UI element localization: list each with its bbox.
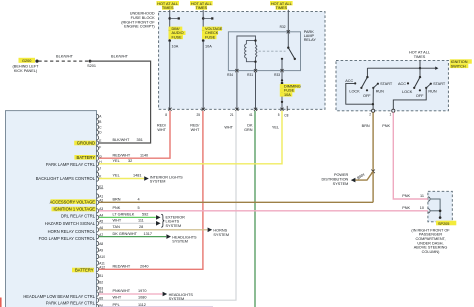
svg-text:HOT AT ALL: HOT AT ALL: [157, 2, 178, 6]
svg-text:1481: 1481: [133, 174, 141, 178]
svg-text:OFF: OFF: [416, 94, 424, 98]
svg-text:A10: A10: [99, 255, 105, 259]
svg-text:592: 592: [142, 213, 148, 217]
svg-text:R32: R32: [280, 25, 286, 29]
svg-text:1: 1: [390, 112, 392, 116]
svg-text:UNDERHOOD: UNDERHOOD: [130, 12, 155, 16]
svg-text:GROUND: GROUND: [77, 141, 95, 146]
svg-text:F: F: [99, 146, 101, 150]
svg-text:RUN: RUN: [376, 89, 384, 93]
svg-text:PPL: PPL: [113, 303, 120, 307]
node S201: [89, 60, 92, 63]
svg-text:A8: A8: [99, 242, 103, 246]
svg-text:LOCK: LOCK: [402, 90, 413, 94]
svg-text:4: 4: [138, 198, 140, 202]
svg-text:ACCESSORY VOLTAGE: ACCESSORY VOLTAGE: [50, 199, 96, 204]
svg-text:8: 8: [165, 113, 167, 117]
svg-text:BACKLIGHT LAMPS CONTROL: BACKLIGHT LAMPS CONTROL: [36, 176, 96, 181]
bus stub F1: [170, 17, 178, 19]
svg-text:TIMES: TIMES: [414, 55, 426, 59]
fuse block bottom pin 41: [254, 108, 257, 111]
ignition pin 2: [372, 109, 375, 112]
svg-text:RUN: RUN: [428, 89, 436, 93]
wire RED/WHT 2040 fuse pin 25 to module pin A12: [99, 111, 203, 269]
svg-text:SP205: SP205: [438, 222, 449, 226]
svg-text:28: 28: [139, 225, 143, 229]
svg-text:ACC: ACC: [345, 79, 353, 83]
svg-text:B1: B1: [99, 274, 103, 278]
label IGNITION SWITCH: [450, 59, 472, 68]
svg-text:SYSTEM: SYSTEM: [213, 233, 229, 237]
label HOT AT ALL TIMES (relay feed): [270, 1, 293, 10]
svg-text:1112: 1112: [138, 303, 146, 307]
pin R33: [280, 69, 283, 72]
wire red tick at left edge: [0, 298, 2, 307]
splice SP205 box: [428, 191, 452, 222]
wire BLK/WHT 351 from S201 to module pin E: [90, 61, 151, 143]
splice (X) on BRN wire: [371, 170, 375, 174]
branch BRN to power distribution: [355, 171, 373, 180]
svg-text:START: START: [433, 82, 446, 86]
svg-text:YEL: YEL: [272, 126, 279, 130]
svg-text:SYSTEM: SYSTEM: [333, 182, 349, 186]
svg-text:HOT AT ALL: HOT AT ALL: [409, 51, 430, 55]
fuse block bottom pin 5: [280, 108, 283, 111]
svg-text:LT GRN/BLK: LT GRN/BLK: [113, 213, 135, 217]
svg-text:WHT: WHT: [113, 295, 122, 299]
wire BRN from ignition pin 2: [372, 112, 374, 202]
svg-text:BLK/WHT: BLK/WHT: [113, 138, 131, 142]
svg-text:HOT AT ALL: HOT AT ALL: [191, 2, 212, 6]
svg-text:A3: A3: [99, 207, 103, 211]
svg-text:IGNITION 1 VOLTAGE: IGNITION 1 VOLTAGE: [54, 207, 96, 212]
svg-text:SYSTEM: SYSTEM: [169, 297, 185, 301]
label SP205: [436, 221, 456, 226]
label UNDERHOOD FUSE BLOCK: [121, 12, 155, 29]
svg-text:2040: 2040: [140, 265, 148, 269]
fuse F2 VOLTAGE CHECK feed wire: [202, 12, 204, 30]
svg-text:A12: A12: [99, 266, 105, 270]
fuse F1 DIM/AUDIO feed wire: [169, 12, 171, 30]
wire BLK/WHT dashed G200 to S201: [39, 60, 91, 62]
wire R33 to dimming fuse: [281, 72, 283, 80]
module label IGNITION 1 VOLTAGE (pin A3): [52, 207, 96, 212]
svg-text:HEADLAMP LOW BEAM RELAY CTRL: HEADLAMP LOW BEAM RELAY CTRL: [23, 294, 95, 299]
svg-text:HOT AT ALL: HOT AT ALL: [271, 2, 292, 6]
svg-text:YEL: YEL: [113, 174, 120, 178]
module label BATTERY (pin G): [74, 155, 95, 160]
svg-text:A2: A2: [99, 199, 103, 203]
svg-text:1140: 1140: [140, 153, 148, 157]
svg-text:10: 10: [420, 206, 424, 210]
svg-text:PNK/WHT: PNK/WHT: [113, 289, 131, 293]
svg-text:COLUMN): COLUMN): [422, 250, 440, 254]
ignition feed wire: [419, 60, 421, 68]
connector C8 mark: [286, 106, 288, 111]
svg-text:E2: E2: [99, 185, 103, 189]
svg-text:B4: B4: [99, 290, 103, 294]
svg-text:OFF: OFF: [363, 94, 371, 98]
svg-text:A9: A9: [99, 248, 103, 252]
svg-text:R33: R33: [274, 73, 280, 77]
wire BRN 4 module pin A2 to ignition splice: [99, 201, 373, 203]
svg-text:SYSTEM: SYSTEM: [150, 180, 166, 184]
brace exterior lights: [161, 214, 164, 227]
ignition switch box: [336, 60, 448, 110]
relay coil: [237, 36, 257, 71]
svg-text:10A: 10A: [172, 44, 179, 48]
relay K1 park lamp relay box: [228, 32, 300, 71]
fuse block bottom pin 21: [235, 108, 238, 111]
svg-text:351: 351: [137, 138, 143, 142]
svg-text:B2: B2: [99, 280, 103, 284]
svg-text:TAN: TAN: [113, 225, 121, 229]
relay switch: [287, 32, 289, 48]
svg-text:(RIGHT FRONT OF: (RIGHT FRONT OF: [121, 20, 155, 24]
ignition pin 1: [392, 109, 395, 112]
svg-text:10A: 10A: [205, 44, 212, 48]
svg-text:START: START: [380, 82, 393, 86]
wire PNK 5 module pin A3 to SP205 pin 10: [99, 210, 428, 212]
svg-text:HAZARD SWITCH SIGNAL: HAZARD SWITCH SIGNAL: [45, 221, 96, 226]
wire R34 to fuse block pin 21: [236, 72, 238, 109]
svg-text:WHT: WHT: [113, 219, 122, 223]
svg-text:TIMES: TIMES: [275, 6, 287, 10]
svg-text:25: 25: [196, 113, 200, 117]
svg-text:BLK/WHT: BLK/WHT: [56, 54, 74, 58]
svg-text:ENGINE COMPT): ENGINE COMPT): [124, 25, 155, 29]
svg-text:SYSTEM: SYSTEM: [166, 224, 182, 228]
label HOT AT ALL TIMES (fuse 1): [156, 1, 179, 10]
wire YEL 32 fuse pin 5 to module pin H: [99, 111, 282, 164]
svg-text:R34: R34: [227, 73, 233, 77]
svg-text:A4: A4: [99, 214, 103, 218]
fuse block bottom pin 8: [168, 108, 171, 111]
svg-text:A6: A6: [99, 226, 103, 230]
wire relay feed R32: [287, 12, 289, 32]
feed stubs from power labels: [170, 10, 289, 12]
svg-text:A7: A7: [99, 233, 103, 237]
svg-text:BRN: BRN: [362, 124, 370, 128]
svg-text:BATTERY: BATTERY: [76, 155, 95, 160]
svg-text:5: 5: [278, 113, 280, 117]
fuse F3 DIMMING FUSE 10A: [281, 84, 282, 93]
svg-text:PNK: PNK: [113, 206, 121, 210]
relay mechanical link (dashed): [259, 50, 286, 52]
svg-text:WHT: WHT: [157, 128, 166, 132]
svg-text:WHT: WHT: [191, 128, 200, 132]
wire R31 to fuse block pin 41: [255, 72, 257, 109]
module U1 body control module box: [6, 111, 97, 307]
svg-text:11: 11: [420, 194, 424, 198]
svg-text:FUSE: FUSE: [205, 35, 216, 39]
svg-text:PNK: PNK: [402, 194, 410, 198]
svg-text:1970: 1970: [138, 289, 146, 293]
svg-text:FOG LAMP RELAY CONTROL: FOG LAMP RELAY CONTROL: [39, 236, 96, 241]
ground G200: [13, 58, 40, 73]
SP205 pin 10: [428, 209, 430, 213]
svg-text:SYSTEM: SYSTEM: [172, 240, 188, 244]
pin R31: [254, 69, 257, 72]
svg-text:A5: A5: [99, 220, 103, 224]
svg-text:TIMES: TIMES: [195, 6, 207, 10]
module label GROUND: [74, 141, 96, 146]
underhood fuse block box: [159, 12, 325, 110]
svg-text:21: 21: [230, 113, 234, 117]
bus stub F2: [203, 17, 211, 19]
wire PNK/WHT 1970 module pin B4 to headlights: [99, 293, 162, 295]
wire PPL 1112 module pin B6 (cut off at bottom edge): [99, 306, 213, 307]
svg-text:KICK PANEL): KICK PANEL): [14, 69, 38, 73]
wire RED/WHT 1140 fuse pin 8 to module pin G: [99, 111, 170, 158]
fuse F2 VOLTAGE CHECK FUSE 10A: [203, 31, 204, 40]
wire TAN 28 module pin A6 to horns: [99, 229, 207, 231]
SP205 internal wires: [430, 199, 440, 218]
svg-text:10A: 10A: [284, 93, 291, 97]
SP205 location text: [411, 228, 450, 254]
module label ACCESSORY VOLTAGE (pin A2): [50, 199, 96, 204]
SP205 pin 11: [428, 197, 430, 201]
wire LT GRN/BLK 592 module pin A4 to exterior lights: [99, 216, 156, 218]
wire PNK from ignition pin 1 to SP205 pin 11: [393, 112, 428, 199]
pin R32: [287, 30, 290, 33]
wire WHT 1080 fuse pin 21 to module pin B5: [99, 111, 236, 300]
module connector pin arcs: [97, 114, 99, 307]
svg-text:B5: B5: [99, 296, 103, 300]
svg-text:41: 41: [249, 113, 253, 117]
svg-text:IGNITION: IGNITION: [451, 60, 468, 64]
svg-text:DRL RELAY CTRL: DRL RELAY CTRL: [61, 213, 96, 218]
svg-text:1317: 1317: [144, 232, 152, 236]
svg-text:TIMES: TIMES: [162, 6, 174, 10]
svg-text:111: 111: [138, 219, 144, 223]
svg-text:BATTERY: BATTERY: [75, 268, 94, 273]
wire DK GRN/WHT 1317 module pin A7 to headlights: [99, 236, 166, 238]
svg-text:E: E: [99, 139, 101, 143]
svg-text:BLK/WHT: BLK/WHT: [111, 54, 129, 58]
svg-text:S201: S201: [87, 64, 96, 68]
wire YEL 1481 module pin K to interior lights: [99, 178, 144, 180]
svg-text:ACC: ACC: [398, 82, 406, 86]
svg-text:B: B: [99, 120, 101, 124]
fuse block bottom pin 25: [202, 108, 205, 111]
svg-text:FUSE BLOCK: FUSE BLOCK: [131, 16, 156, 20]
svg-text:SWITCH: SWITCH: [451, 64, 466, 68]
label HOT AT ALL TIMES (fuse 2): [190, 1, 213, 10]
svg-text:32: 32: [128, 159, 132, 163]
svg-text:FUSE: FUSE: [172, 35, 183, 39]
wire DK GRN fuse pin 41 down off page: [254, 111, 256, 307]
svg-text:PARK LAMP RELAY CTRL: PARK LAMP RELAY CTRL: [46, 162, 96, 167]
module label BATTERY (pin A12): [72, 268, 94, 273]
svg-text:R31: R31: [247, 73, 253, 77]
svg-text:PNK: PNK: [402, 206, 410, 210]
svg-text:RED/WHT: RED/WHT: [113, 153, 131, 157]
svg-text:WHT: WHT: [224, 126, 233, 130]
svg-text:RELAY: RELAY: [304, 38, 317, 42]
svg-text:BRN: BRN: [113, 198, 121, 202]
module pin letters: [99, 115, 105, 307]
svg-text:HORN RELAY CONTROL: HORN RELAY CONTROL: [48, 229, 96, 234]
svg-text:DK GRN/WHT: DK GRN/WHT: [113, 232, 138, 236]
svg-text:G200: G200: [22, 59, 31, 63]
svg-text:(BEHIND LEFT: (BEHIND LEFT: [13, 65, 40, 69]
svg-text:1080: 1080: [138, 295, 146, 299]
svg-text:RED/WHT: RED/WHT: [113, 265, 131, 269]
ignition switch 1 (left): [345, 68, 393, 109]
svg-text:LOCK: LOCK: [349, 90, 360, 94]
svg-text:PNK: PNK: [382, 124, 390, 128]
svg-text:2: 2: [369, 112, 371, 116]
svg-text:5: 5: [138, 206, 140, 210]
wire WHT 111 module pin A5 to exterior lights: [99, 222, 156, 224]
ignition switch 2 (right): [393, 68, 446, 109]
svg-text:YEL: YEL: [113, 159, 120, 163]
svg-text:PARK LAMP RELAY CTRL: PARK LAMP RELAY CTRL: [46, 300, 96, 305]
svg-text:C8: C8: [284, 113, 288, 117]
fuse F1 DIM/AUDIO FUSE 10A: [169, 31, 170, 40]
svg-text:GRN: GRN: [244, 128, 253, 132]
pin R34: [235, 69, 238, 72]
